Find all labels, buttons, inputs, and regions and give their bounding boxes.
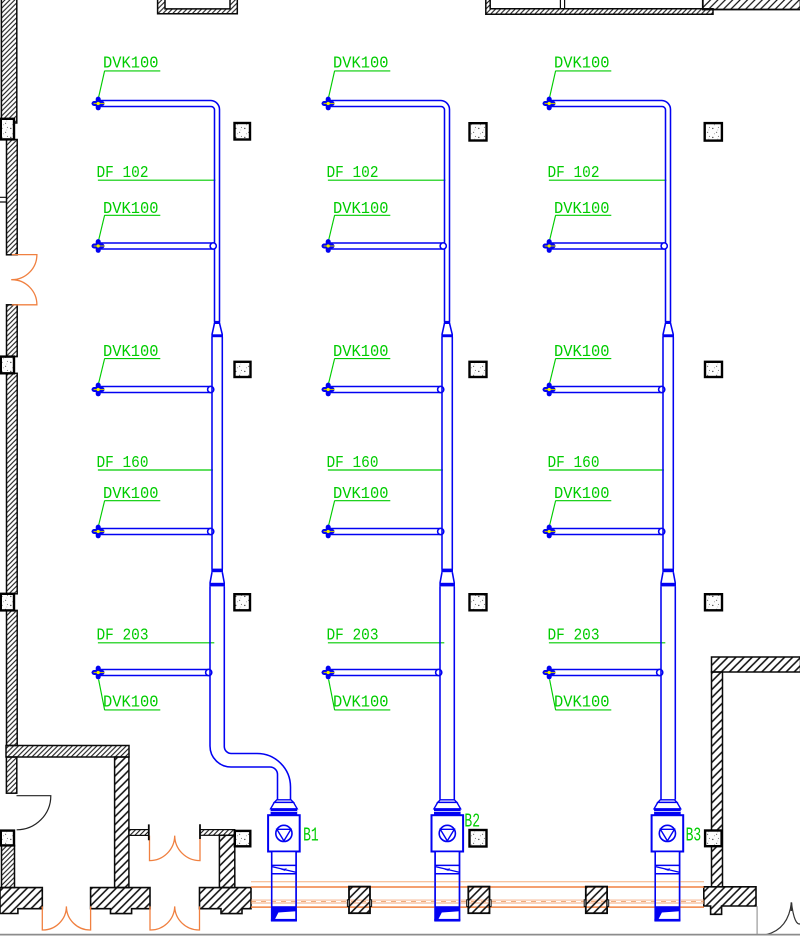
fan unit B2 inlet flare (434, 802, 461, 808)
column on left wall row 2 (1, 357, 14, 374)
wall: left exterior beside store room (6, 757, 16, 793)
leader DVK100 run3 row5 (550, 680, 556, 710)
facade post P1 (347, 887, 371, 914)
diffuser DVK100 run2 row3 (321, 383, 334, 397)
diffuser DVK100 run3 row1 (542, 97, 555, 111)
column grid C3 (705, 594, 722, 610)
wall: right bottom footing (704, 887, 756, 915)
diffuser DVK100 run1 row2 (91, 239, 104, 253)
fan unit B2 bottom cap (434, 919, 460, 921)
fan unit B2 outlet connector band (435, 906, 459, 919)
duct run1 branch1+main right line (98, 101, 219, 322)
svg-text:DVK100: DVK100 (103, 54, 159, 73)
fan unit B3 impeller symbol (659, 825, 675, 841)
duct run2 branch4 (328, 529, 441, 535)
leader DVK100 run1 row5 (99, 680, 105, 710)
leader DVK100 run2 row1 (329, 71, 335, 97)
fan unit B3 inlet joint (658, 800, 677, 803)
fan unit B2 inlet joint (438, 800, 457, 803)
fan unit B2 exit duct side lines overdraw (435, 852, 459, 921)
fan unit B1 flexible connector band (271, 809, 298, 815)
vestibule door frame ticks (149, 824, 200, 840)
wall: bottom footing block C (200, 888, 252, 914)
facade line solid lower (251, 906, 704, 908)
wall: left exterior bottom segment (2, 845, 15, 887)
fan unit B3 bottom cap (654, 919, 680, 921)
fan unit B1 damper (272, 865, 296, 873)
label DVK100 run1 row5 (103, 693, 159, 712)
facade post P3 (584, 887, 608, 914)
column on left wall row 3 (1, 594, 14, 611)
label DVK100 run1 row1 (103, 54, 159, 73)
column grid A2 (235, 362, 251, 377)
column on left wall row 4 (1, 831, 14, 846)
label DF 102 run3 (548, 163, 600, 182)
single door store room (black) (17, 796, 51, 830)
fan unit B2 flexible connector band (434, 809, 461, 815)
facade post P2 (467, 887, 491, 914)
underline DVK100 run2 row3 (334, 358, 390, 360)
fan unit B3 outlet connector band (655, 906, 679, 919)
fan unit B1 exit duct side lines overdraw (272, 852, 296, 921)
leader DVK100 run2 row5 (329, 680, 335, 710)
wall: left exterior middle segment (7, 373, 18, 594)
duct run2 branch5 (328, 670, 439, 676)
fan unit B3 exit duct (655, 852, 679, 921)
duct run2 transition2 bottom joint (439, 583, 455, 587)
label DVK100 run1 row3 (103, 342, 159, 361)
wall: top band with left riser (486, 0, 713, 14)
underline DVK100 run3 row3 (555, 358, 611, 360)
duct run2 wide section to fan (440, 586, 454, 799)
underline DVK100 run3 row5 (555, 709, 611, 711)
underline DF 160 run3 (549, 469, 664, 471)
duct run1 transition2 taper (210, 572, 224, 583)
label DF 203 run1 (97, 626, 149, 645)
fan unit B1 outlet connector band (272, 906, 296, 919)
underline DVK100 run1 row3 (104, 358, 160, 360)
diffuser DVK100 run2 row4 (321, 525, 334, 539)
fan unit B2 damper (435, 865, 459, 873)
wall: top partition stub (560, 0, 564, 9)
branch end cap run1 branch3 (208, 386, 214, 392)
underline DF 160 run1 (98, 469, 213, 471)
svg-text:DVK100: DVK100 (333, 693, 389, 712)
duct run1 wide section with S-bend outer (210, 586, 278, 799)
diffuser DVK100 run2 row5 (321, 666, 334, 680)
branch end cap run2 branch5 (436, 669, 442, 675)
duct run3 transition2 bottom joint (660, 583, 676, 587)
fan unit B3 casing box (652, 815, 684, 851)
label DVK100 run2 row4 (333, 484, 389, 503)
duct run2 branch1 inner+main left line (328, 107, 444, 322)
fan unit B3 exit duct side lines overdraw (655, 852, 679, 921)
svg-text:DVK100: DVK100 (103, 693, 159, 712)
svg-text:DF 160: DF 160 (327, 453, 379, 472)
leader DVK100 run3 row4 (550, 501, 556, 526)
diffuser DVK100 run1 row1 (91, 97, 104, 111)
underline DVK100 run3 row2 (555, 214, 611, 216)
svg-text:B3: B3 (686, 825, 702, 847)
duct run1 wide section with S-bend inner (224, 586, 290, 799)
svg-text:DF 102: DF 102 (97, 163, 149, 182)
leader DVK100 run2 row3 (329, 359, 335, 384)
column grid A1 (235, 123, 251, 140)
fan unit B3 flexible connector band (654, 809, 681, 815)
column grid C1 (705, 123, 722, 141)
leader DVK100 run1 row4 (99, 501, 105, 526)
branch end cap run1 branch5 (206, 669, 212, 675)
label DVK100 run2 row2 (333, 199, 389, 218)
svg-text:DF 203: DF 203 (97, 626, 149, 645)
partition stub at left edge (0, 197, 7, 202)
branch end cap run1 branch4 (208, 528, 214, 534)
label fan B3 (686, 825, 702, 847)
entrance double door 2 (orange) (150, 906, 200, 930)
duct run3 branch1 inner+main left line (549, 107, 665, 322)
column grid A4 (235, 831, 251, 846)
duct run2 branch3 (328, 387, 441, 393)
underline DF 102 run3 (549, 179, 667, 181)
label DF 102 run1 (97, 163, 149, 182)
duct run2 transition1 top joint (444, 322, 450, 324)
underline DVK100 run1 row2 (104, 214, 160, 216)
duct run3 mid section (663, 337, 673, 569)
duct run1 branch4 (98, 529, 211, 535)
wall: store room right wall (115, 757, 129, 888)
branch end cap run3 branch2 (661, 243, 667, 249)
duct run1 transition1 bottom joint (211, 334, 223, 337)
duct run3 transition1 bottom joint (662, 334, 674, 337)
label fan B1 (303, 825, 319, 847)
underline DF 203 run3 (549, 642, 665, 644)
duct run3 branch5 (549, 670, 660, 676)
fan unit B2 exit duct (435, 852, 459, 921)
entrance double door 1 (orange) (42, 906, 90, 930)
leader DVK100 run2 row2 (329, 215, 335, 240)
label DF 102 run2 (327, 163, 379, 182)
svg-text:DF 160: DF 160 (548, 453, 600, 472)
wall: right wing horizontal wall (712, 657, 800, 672)
duct run2 branch1+main right line (328, 101, 449, 322)
label DF 160 run2 (327, 453, 379, 472)
branch end cap run2 branch4 (438, 528, 444, 534)
underline DVK100 run2 row1 (334, 70, 390, 72)
wall: thin strip left of vestibule door (129, 830, 149, 836)
wall: top-right thick exterior band (703, 0, 800, 10)
wall: bottom footing block A (0, 888, 42, 914)
duct run2 transition2 top joint (441, 569, 453, 573)
label DVK100 run3 row4 (554, 484, 610, 503)
double door left wall (orange) (11, 255, 37, 305)
branch end cap run3 branch5 (657, 669, 663, 675)
duct run3 transition1 taper (663, 323, 673, 334)
column grid A3 (234, 594, 250, 610)
diffuser DVK100 run3 row4 (542, 525, 555, 539)
underline DF 203 run2 (328, 642, 444, 644)
underline DVK100 run1 row1 (104, 70, 160, 72)
duct run2 transition1 bottom joint (441, 334, 453, 337)
wall: right wing vertical wall (712, 672, 723, 887)
column grid B4 (470, 830, 487, 847)
fan unit B1 exit duct (272, 852, 296, 921)
duct run3 wide section to fan (661, 586, 675, 799)
leader DVK100 run2 row4 (329, 501, 335, 526)
label DVK100 run3 row5 (554, 693, 610, 712)
diffuser DVK100 run3 row5 (542, 666, 555, 680)
label DVK100 run1 row4 (103, 484, 159, 503)
wall: left exterior lower segment (7, 610, 18, 745)
column grid B3 (470, 594, 487, 610)
duct run1 branch2 (98, 243, 214, 249)
label DF 160 run3 (548, 453, 600, 472)
underline DVK100 run2 row4 (334, 500, 390, 502)
facade line solid upper (251, 886, 704, 888)
duct run1 transition1 top joint (214, 322, 220, 324)
column grid B1 (470, 123, 487, 140)
label DF 160 run1 (97, 453, 149, 472)
column on left wall row 1 (1, 119, 14, 140)
wall: horizontal wall of store room (6, 746, 129, 758)
wall: left exterior above entry door (7, 140, 18, 255)
branch end cap run1 branch2 (210, 243, 216, 249)
fan unit B2 impeller symbol (439, 825, 455, 841)
label DF 203 run2 (327, 626, 379, 645)
diffuser DVK100 run1 row5 (91, 666, 104, 680)
wall: bottom footing block B (91, 888, 150, 914)
svg-text:B1: B1 (303, 825, 319, 847)
fan unit B1 impeller symbol (276, 825, 292, 841)
underline DVK100 run3 row1 (555, 70, 611, 72)
column grid C4 (705, 831, 722, 847)
branch end cap run2 branch3 (438, 386, 444, 392)
duct run1 branch5 (98, 670, 209, 676)
right door frame line (grey) (756, 906, 758, 935)
duct run3 transition2 top joint (662, 569, 674, 573)
label DVK100 run3 row1 (554, 54, 610, 73)
leader DVK100 run3 row2 (550, 215, 556, 240)
duct run3 branch4 (549, 529, 662, 535)
underline DVK100 run1 row5 (104, 709, 160, 711)
fan unit B3 inlet flare (654, 802, 681, 808)
duct run1 transition2 bottom joint (209, 583, 225, 587)
underline DF 203 run1 (98, 642, 214, 644)
diffuser DVK100 run1 row4 (91, 525, 104, 539)
underline DF 102 run2 (328, 179, 446, 181)
underline DF 102 run1 (98, 179, 215, 181)
column grid C2 (705, 362, 722, 377)
leader DVK100 run3 row1 (550, 71, 556, 97)
underline DVK100 run2 row2 (334, 214, 390, 216)
diffuser DVK100 run3 row3 (542, 383, 555, 397)
bottom-right door arcs (black) (766, 902, 800, 934)
duct run2 branch2 (328, 243, 444, 249)
svg-text:DVK100: DVK100 (554, 54, 610, 73)
label fan B2 (464, 811, 480, 833)
fan unit B2 casing box (432, 815, 464, 851)
facade center dashed line (251, 901, 704, 903)
fan unit B1 casing box (268, 815, 300, 851)
label DVK100 run3 row2 (554, 199, 610, 218)
duct run3 transition1 top joint (665, 322, 671, 324)
facade mullion line top (251, 899, 704, 901)
duct run2 transition1 taper (442, 323, 452, 334)
duct run3 branch2 (549, 243, 665, 249)
duct run1 branch1 inner+main left line (98, 107, 214, 322)
duct run1 mid section (212, 337, 222, 569)
duct run3 transition2 taper (661, 572, 675, 583)
label DVK100 run2 row5 (333, 693, 389, 712)
facade line faint upper (251, 881, 704, 883)
wall: top U-shaped duct shaft (158, 0, 238, 14)
underline DVK100 run3 row4 (555, 500, 611, 502)
duct run1 transition1 taper (212, 323, 222, 334)
label DF 203 run3 (548, 626, 600, 645)
fan unit B3 damper (655, 865, 679, 873)
facade mullion line bottom (251, 902, 704, 904)
duct run3 branch3 (549, 387, 662, 393)
svg-text:DVK100: DVK100 (554, 693, 610, 712)
fan unit B1 inlet flare (271, 802, 298, 808)
svg-text:B2: B2 (464, 811, 480, 833)
diffuser DVK100 run2 row2 (321, 239, 334, 253)
label DVK100 run2 row1 (333, 54, 389, 73)
branch end cap run3 branch3 (659, 386, 665, 392)
label DVK100 run3 row3 (554, 342, 610, 361)
diffuser DVK100 run2 row1 (321, 97, 334, 111)
underline DF 160 run2 (328, 469, 443, 471)
bottom boundary line (grey) (0, 934, 800, 936)
duct run2 mid section (442, 337, 452, 569)
duct run1 branch3 (98, 387, 211, 393)
leader DVK100 run1 row3 (99, 359, 105, 384)
svg-text:DF 102: DF 102 (327, 163, 379, 182)
duct run2 transition2 taper (440, 572, 454, 583)
svg-text:DVK100: DVK100 (333, 54, 389, 73)
fan unit B1 inlet joint (274, 800, 293, 803)
svg-text:DF 102: DF 102 (548, 163, 600, 182)
wall: vestibule right wall (219, 835, 234, 887)
fan unit B1 bottom cap (271, 919, 297, 921)
leader DVK100 run3 row3 (550, 359, 556, 384)
underline DVK100 run1 row4 (104, 500, 160, 502)
branch end cap run3 branch4 (659, 528, 665, 534)
svg-text:DF 160: DF 160 (97, 453, 149, 472)
wall: left exterior, top segment (1, 0, 16, 123)
svg-text:DF 203: DF 203 (548, 626, 600, 645)
wall: thin strip right of vestibule door (200, 830, 235, 836)
label DVK100 run1 row2 (103, 199, 159, 218)
branch end cap run2 branch2 (440, 243, 446, 249)
leader DVK100 run1 row1 (99, 71, 105, 97)
column grid B2 (470, 362, 487, 377)
duct run1 transition2 top joint (211, 569, 223, 573)
label DVK100 run2 row3 (333, 342, 389, 361)
svg-text:DF 203: DF 203 (327, 626, 379, 645)
wall: left exterior below entry door (7, 305, 18, 357)
underline DVK100 run2 row5 (334, 709, 390, 711)
leader DVK100 run1 row2 (99, 215, 105, 240)
diffuser DVK100 run3 row2 (542, 239, 555, 253)
diffuser DVK100 run1 row3 (91, 383, 104, 397)
duct run3 branch1+main right line (549, 101, 670, 322)
vestibule double door (orange) (150, 836, 201, 861)
